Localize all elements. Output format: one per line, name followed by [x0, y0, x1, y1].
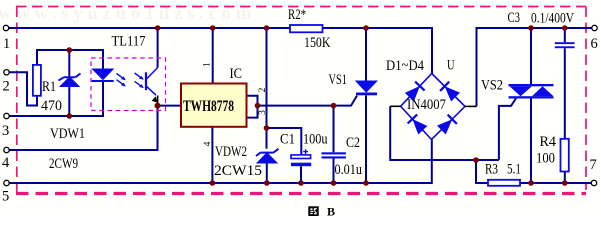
wire terminal3 LED cathode [8, 82, 103, 116]
label 3 [2, 123, 9, 139]
label C1 [280, 132, 295, 148]
label C2 [346, 135, 360, 151]
svg-text:2CW9: 2CW9 [49, 156, 78, 172]
terminal 3 [4, 113, 9, 118]
terminal 5 [4, 180, 9, 185]
wire VS2 gate [476, 98, 516, 160]
wire control line to VS1 gate [258, 96, 358, 106]
resistor R4 [561, 139, 569, 172]
svg-text:C2: C2 [346, 135, 360, 151]
label R2* [288, 7, 306, 23]
border frame dashed [16, 7, 586, 194]
svg-text:VS1: VS1 [329, 72, 348, 88]
label 2 [3, 78, 10, 94]
svg-text:2: 2 [3, 78, 10, 94]
svg-text:R2*: R2* [288, 7, 306, 23]
svg-text:VDW1: VDW1 [50, 126, 85, 142]
wire C1 bottom [300, 166, 302, 183]
junction bottom bus R4 [562, 180, 568, 186]
wire VS2 leads [530, 28, 532, 183]
thyristor VS1 [356, 81, 377, 95]
junction bottom bus VS2 R3 [528, 180, 534, 186]
wire R2 right to bridge top [323, 28, 433, 74]
wire top bus right [477, 28, 593, 106]
svg-text:2: 2 [258, 87, 268, 92]
resistor R1 [33, 65, 41, 96]
triac VS2 [509, 84, 554, 99]
bridge rectifier D1-D4 diamond [401, 74, 465, 140]
junction VDW1 terminal3 [67, 113, 73, 119]
wire C2 leads [333, 106, 335, 183]
label VS2 [481, 78, 503, 94]
label C3 [508, 10, 521, 26]
resistor R3 [488, 180, 520, 186]
wire bridge left corner to R3 junction [390, 106, 476, 160]
label C2 value 0.01u [335, 162, 363, 178]
wire pin5 [158, 105, 182, 107]
junction bottom bus C2 [331, 180, 337, 186]
pin label 4 [203, 141, 213, 146]
opto LED [92, 69, 114, 82]
bridge diode D4 bottom-right [437, 115, 457, 135]
wire VS1 leads [365, 28, 367, 183]
label VDW1 [50, 126, 85, 142]
svg-text:4: 4 [203, 141, 213, 146]
junction top bus x267 [264, 25, 270, 31]
svg-text:3: 3 [258, 110, 268, 115]
svg-text:2CW15: 2CW15 [214, 163, 262, 179]
label TWH8778 [183, 98, 234, 115]
svg-text:100: 100 [536, 151, 555, 167]
svg-text:150K: 150K [304, 35, 331, 51]
terminal 7 [591, 180, 596, 185]
junction top bus collector [155, 25, 161, 31]
label 5 [2, 188, 9, 204]
wire x267 column and C1 branch [267, 28, 302, 155]
terminal 1 [3, 25, 8, 30]
svg-text:R3: R3 [485, 161, 498, 177]
bridge diode D1 top-left [405, 82, 425, 102]
junction bottom bus VDW2 [264, 180, 270, 186]
label 1 [3, 36, 10, 52]
zener diode VDW2 [256, 149, 279, 163]
svg-text:VS2: VS2 [481, 78, 503, 94]
label 4 [2, 155, 10, 171]
junction control C2 [331, 103, 337, 109]
bridge diode D3 bottom-left [408, 115, 428, 135]
svg-text:U: U [447, 57, 455, 73]
label C3 value 0.1/400V [531, 10, 574, 26]
label R1 [42, 79, 56, 95]
svg-text:R1: R1 [42, 79, 56, 95]
junction R1 VDW1 [67, 47, 73, 53]
opto phototransistor [146, 68, 158, 104]
IC box TWH8778 [181, 84, 247, 127]
svg-text:4: 4 [2, 155, 10, 171]
svg-text:TWH8778: TWH8778 [183, 98, 234, 115]
label R4 [540, 134, 557, 150]
capacitor C2 [322, 152, 346, 158]
svg-text:1: 1 [3, 36, 10, 52]
label D1~D4 [386, 58, 424, 74]
label IN4007 [407, 97, 446, 113]
zener diode VDW1 [59, 74, 81, 87]
svg-text:R4: R4 [540, 134, 557, 150]
label VDW2 [215, 144, 247, 160]
label R3 [485, 161, 498, 177]
capacitor C3 [555, 42, 575, 48]
junction bottom bus VS1 [363, 180, 369, 186]
label 6 [591, 36, 598, 52]
label R2 value 150K [304, 35, 331, 51]
terminal 4 [4, 147, 9, 152]
svg-text:0.01u: 0.01u [335, 162, 363, 178]
wire VDW2 bottom [266, 163, 268, 183]
wire top bus left [8, 27, 290, 29]
label VDW1 type 2CW9 [49, 156, 78, 172]
caption tu B [308, 205, 335, 219]
svg-text:IC: IC [230, 66, 243, 82]
svg-text:B: B [327, 205, 335, 218]
wire R1 top net y50 [37, 50, 103, 69]
wire pins 2 and 3 bracket [247, 96, 258, 118]
svg-text:5: 5 [2, 188, 9, 204]
junction top bus pin1 [210, 25, 216, 31]
svg-text:TL117: TL117 [112, 34, 146, 50]
label VS1 [329, 72, 348, 88]
junction pins 2-3 [255, 103, 261, 109]
label IC [230, 66, 243, 82]
label VDW2 type 2CW15 [214, 163, 262, 179]
resistor R2 [290, 25, 323, 32]
svg-text:0.1/400V: 0.1/400V [531, 10, 574, 26]
optocoupler dashed box TL117 [91, 58, 166, 111]
wire terminal4 to emitter [8, 106, 158, 150]
junction top bus VS2 [528, 25, 534, 31]
label R1 value 470 [41, 98, 62, 114]
pin label 3 [258, 110, 268, 115]
junction x267 C1 branch [264, 125, 270, 131]
opto light arrows [117, 73, 144, 88]
svg-text:7: 7 [590, 157, 597, 173]
svg-text:5.1: 5.1 [507, 161, 521, 177]
label U [447, 57, 455, 73]
wire collector to top bus [157, 28, 159, 68]
wire C3 R4 snubber column [564, 28, 566, 183]
svg-text:VDW2: VDW2 [215, 144, 247, 160]
label TL117 [112, 34, 146, 50]
wire pin4 [211, 127, 213, 183]
wire bottom bus right [476, 160, 592, 183]
label R4 value 100 [536, 151, 555, 167]
svg-text:470: 470 [41, 98, 62, 114]
junction emitter pin5 [155, 103, 161, 109]
svg-text:C1: C1 [280, 132, 295, 148]
label 7 [590, 157, 597, 173]
junction bottom bus pin4 [210, 180, 216, 186]
svg-text:3: 3 [2, 123, 9, 139]
svg-text:6: 6 [591, 36, 598, 52]
label R3 value 5.1 [507, 161, 521, 177]
wire pin1 [212, 28, 214, 84]
svg-text:C3: C3 [508, 10, 521, 26]
watermark [0, 3, 256, 24]
terminal 2 [4, 70, 9, 75]
junction bridge R3 gate [473, 157, 479, 163]
wire terminal2 to R1 [8, 72, 37, 105]
svg-text:D1~D4: D1~D4 [386, 58, 424, 74]
svg-text:IN4007: IN4007 [407, 97, 446, 113]
capacitor C1 polarized [291, 149, 311, 166]
junction top bus C3 [562, 25, 568, 31]
junction bottom bus C1 [298, 180, 304, 186]
bridge stub left [390, 105, 400, 107]
terminal 6 [592, 25, 597, 30]
bridge diode D2 top-right [440, 82, 460, 102]
pin label 1 [203, 62, 213, 67]
junction top bus VS1 [363, 25, 369, 31]
label C1 value 100u [303, 132, 328, 148]
svg-text:100u: 100u [303, 132, 328, 148]
bridge stub right [465, 105, 477, 107]
svg-text:1: 1 [203, 62, 213, 67]
wire VDW1 leads [68, 50, 70, 116]
pin label 2 [258, 87, 268, 92]
wire bottom bus left [8, 140, 432, 184]
